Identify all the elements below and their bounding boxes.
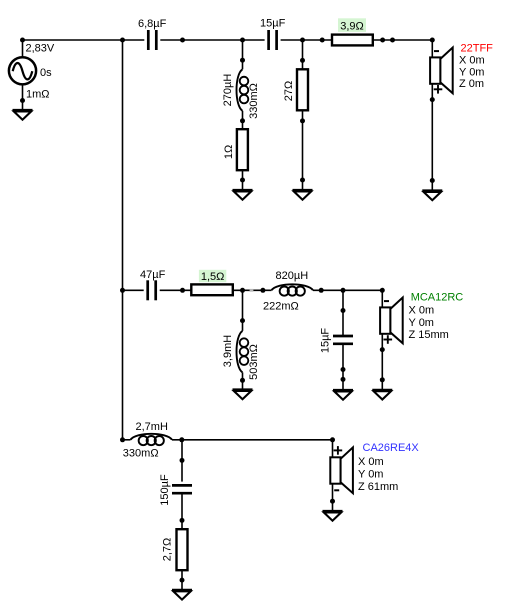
node woofer corner (330, 437, 335, 442)
value label 222mΩ (263, 300, 299, 312)
wire (373, 39, 433, 41)
wire (281, 39, 332, 41)
ground (323, 511, 343, 521)
svg-text:503mΩ: 503mΩ (248, 344, 260, 380)
node 15µF tap (341, 288, 346, 293)
value label 3,9Ω (highlighted) (338, 18, 366, 32)
junction (330, 499, 335, 504)
svg-text:Y 0m: Y 0m (459, 66, 484, 78)
junction (300, 178, 305, 183)
node mid rail tap (120, 288, 125, 293)
junction (240, 318, 245, 323)
svg-text:Z 0m: Z 0m (459, 78, 484, 90)
wire (123, 439, 131, 441)
node 3,9mH tap (240, 288, 245, 293)
value label 15µF (rotated) (319, 328, 331, 354)
svg-text:2,7mH: 2,7mH (136, 421, 168, 433)
junction (430, 178, 435, 183)
speaker MCA12RC (380, 298, 403, 344)
junction (430, 97, 435, 102)
ground (293, 190, 313, 200)
junction (180, 38, 185, 43)
resistor 1Ω (237, 129, 248, 170)
value label 3,9mH (rotated) (222, 335, 234, 367)
junction (300, 118, 305, 123)
svg-text:27Ω: 27Ω (283, 81, 295, 101)
polarity - (tweeter) (434, 50, 439, 52)
wire (302, 40, 304, 69)
name label MCA12RC (411, 292, 464, 304)
svg-text:22TFF: 22TFF (461, 43, 494, 55)
junction (320, 38, 325, 43)
junction (180, 288, 185, 293)
wire main bus (122, 40, 124, 440)
svg-text:Y 0m: Y 0m (358, 468, 383, 480)
wire (181, 493, 183, 529)
ground (333, 390, 353, 400)
svg-text:Z 15mm: Z 15mm (409, 329, 449, 341)
svg-text:Z 61mm: Z 61mm (358, 481, 398, 493)
label Z 15mm (409, 329, 449, 341)
svg-text:1Ω: 1Ω (223, 145, 235, 159)
svg-text:270µH: 270µH (222, 74, 234, 107)
svg-text:X 0m: X 0m (409, 305, 435, 317)
junction (240, 118, 245, 123)
svg-text:1,5Ω: 1,5Ω (201, 271, 225, 283)
value label 820µH (276, 270, 309, 282)
resistor 2,7Ω (177, 529, 188, 570)
value label 503mΩ (rotated) (248, 344, 260, 380)
value label 15µF (260, 18, 286, 30)
polarity + (woofer) (334, 446, 343, 455)
value label 1Ω (rotated) (223, 145, 235, 159)
junction (180, 578, 185, 583)
speaker CA26RE4X (330, 447, 353, 493)
inductor L 820µH (272, 284, 314, 295)
junction (380, 347, 385, 352)
junction (341, 308, 346, 313)
junction (240, 378, 245, 383)
inductor L 2,7mH (131, 434, 173, 445)
value label 1,5Ω (highlighted) (199, 270, 226, 283)
wire (302, 110, 304, 190)
value label 150µF (rotated) (159, 474, 171, 506)
node midrange-branch tap (240, 38, 245, 43)
resistor 27Ω (297, 69, 308, 110)
speaker 22TFF (430, 48, 453, 94)
junction (380, 38, 385, 43)
junction (319, 288, 324, 293)
label Z 0m (459, 78, 484, 90)
node bottom rail corner (120, 437, 125, 442)
value label 27Ω (rotated) (283, 81, 295, 101)
wire (242, 111, 244, 129)
wire (381, 290, 383, 307)
node midrange corner (380, 288, 385, 293)
name label CA26RE4X (363, 442, 420, 454)
wire (233, 289, 272, 291)
label X 0m (409, 305, 435, 317)
wire (332, 484, 334, 511)
junction (260, 288, 265, 293)
value label 47µF (140, 269, 166, 281)
svg-text:15µF: 15µF (260, 18, 286, 30)
label X 0m (459, 55, 485, 67)
svg-text:1mΩ: 1mΩ (26, 89, 50, 101)
junction (20, 98, 25, 103)
value label 1mΩ (26, 89, 50, 101)
node 27Ω tap (300, 38, 305, 43)
resistor 1,5Ω (191, 284, 233, 295)
value label 330mΩ (123, 448, 159, 460)
wire (181, 570, 183, 590)
svg-text:820µH: 820µH (276, 270, 309, 282)
junction (300, 58, 305, 63)
svg-text:CA26RE4X: CA26RE4X (363, 442, 420, 454)
node 150µF tap (179, 437, 184, 442)
ground (233, 190, 253, 200)
svg-text:6,8µF: 6,8µF (138, 18, 167, 30)
label Y 0m (459, 66, 484, 78)
wire (123, 289, 144, 291)
capacitor 47µF (148, 280, 156, 300)
svg-text:15µF: 15µF (319, 328, 331, 354)
ground (13, 110, 33, 120)
ground (372, 390, 392, 400)
label Y 0m (409, 317, 434, 329)
capacitor 15µF (shunt) (333, 336, 353, 344)
ground (422, 191, 442, 201)
wire (181, 440, 183, 482)
svg-text:3,9Ω: 3,9Ω (340, 21, 364, 33)
polarity - (midrange) (384, 300, 389, 302)
svg-text:3,9mH: 3,9mH (222, 335, 234, 367)
capacitor 150µF (172, 485, 192, 493)
svg-text:X 0m: X 0m (358, 456, 384, 468)
value label 270µH (rotated) (222, 74, 234, 107)
resistor 3,9Ω (332, 35, 373, 46)
value label 330mΩ (rotated) (248, 83, 260, 119)
wire (172, 439, 333, 441)
node source output (20, 38, 25, 43)
wire (160, 39, 264, 41)
ground (172, 590, 192, 600)
svg-text:330mΩ: 330mΩ (123, 448, 159, 460)
junction (180, 518, 185, 523)
svg-text:2,83V: 2,83V (26, 43, 55, 55)
junction (341, 367, 346, 372)
svg-text:MCA12RC: MCA12RC (411, 292, 464, 304)
wire (332, 440, 334, 458)
wire (381, 334, 383, 390)
polarity + (tweeter) (434, 85, 443, 94)
label Y 0m (358, 468, 383, 480)
wire (242, 290, 244, 331)
value label 6,8µF (138, 18, 167, 30)
ground (233, 390, 253, 400)
svg-text:222mΩ: 222mΩ (263, 300, 299, 312)
node tweeter corner (430, 38, 435, 43)
svg-text:330mΩ: 330mΩ (248, 83, 260, 119)
wire (342, 290, 344, 336)
label X 0m (358, 456, 384, 468)
node bus tap (120, 38, 125, 43)
svg-text:X 0m: X 0m (459, 55, 485, 67)
wire (431, 40, 433, 57)
inductor L 270µH (237, 69, 249, 111)
junction (341, 377, 346, 382)
wire (242, 170, 244, 190)
wire (342, 344, 344, 390)
polarity + (midrange) (384, 335, 393, 344)
capacitor 15µF (269, 30, 277, 50)
value label 0s (40, 67, 52, 79)
wire (242, 40, 244, 69)
wire (431, 84, 433, 191)
svg-text:150µF: 150µF (159, 474, 171, 506)
value label 2,83V (26, 43, 55, 55)
capacitor 6,8µF (148, 30, 156, 50)
wire marker (gray) (250, 289, 254, 292)
name label 22TFF (461, 43, 494, 55)
value label 2,7Ω (rotated) (161, 538, 173, 562)
value label 2,7mH (136, 421, 168, 433)
wire (160, 289, 192, 291)
svg-text:0s: 0s (40, 67, 52, 79)
junction (240, 58, 245, 63)
wire (242, 372, 244, 389)
polarity - (woofer) (334, 489, 339, 491)
junction (390, 38, 395, 43)
svg-text:Y 0m: Y 0m (409, 317, 434, 329)
junction (380, 377, 385, 382)
wire (23, 39, 145, 41)
wire (313, 289, 382, 291)
voltage source V1 (9, 40, 36, 110)
svg-text:47µF: 47µF (140, 269, 166, 281)
junction (180, 458, 185, 463)
inductor L 3,9mH (237, 331, 249, 373)
label Z 61mm (358, 481, 398, 493)
junction (240, 178, 245, 183)
svg-text:2,7Ω: 2,7Ω (161, 538, 173, 562)
